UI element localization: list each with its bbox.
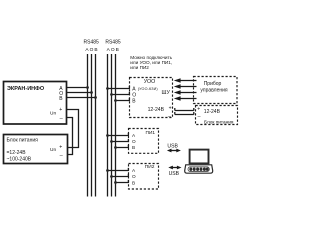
junction bus2 B PI1 <box>114 146 117 149</box>
bus1 wire B <box>95 54 97 197</box>
svg-text:USB: USB <box>167 143 178 149</box>
svg-text:=12-24В: =12-24В <box>7 150 27 156</box>
wire EKRAN A to bus1 A <box>67 87 88 89</box>
svg-text:ПИ1: ПИ1 <box>146 130 156 136</box>
junction bus2 A PI1 <box>106 134 109 137</box>
power supply unit (left) <box>4 135 68 164</box>
bus2 wire B <box>115 54 117 197</box>
arrow ShU 2 <box>174 84 197 89</box>
wire UOO B to bus2 B <box>116 98 130 101</box>
wire PI1 A to bus2 A <box>108 133 129 136</box>
svg-text:Блок питания: Блок питания <box>204 119 234 124</box>
svg-text:+: + <box>59 145 62 151</box>
RS485 bus label 1 <box>84 39 100 53</box>
svg-text:USB: USB <box>169 171 180 177</box>
power link wire - <box>175 112 194 115</box>
svg-text:(УОО-КЗИ): (УОО-КЗИ) <box>138 87 158 91</box>
control unit box <box>194 77 238 104</box>
junction bus1 O <box>90 91 93 94</box>
svg-text:RS485: RS485 <box>84 39 100 45</box>
svg-text:УОО: УОО <box>144 79 155 85</box>
svg-text:12-24В: 12-24В <box>204 109 221 115</box>
power link wire + <box>175 108 194 111</box>
svg-text:12-24В: 12-24В <box>148 107 165 113</box>
laptop computer icon <box>185 150 213 174</box>
PI2 box <box>129 164 159 190</box>
svg-text:–: – <box>198 114 201 120</box>
note text <box>130 55 172 70</box>
svg-text:+: + <box>169 106 172 112</box>
PI1 box <box>129 129 159 154</box>
wire EKRAN O to bus1 O <box>67 92 92 94</box>
junction bus2 O PI1 <box>110 140 113 143</box>
power supply 12-24V box (right) <box>196 106 238 125</box>
junction bus2 B PI2 <box>114 181 117 184</box>
bus1 wire O <box>91 54 93 197</box>
svg-text:O: O <box>90 47 94 53</box>
svg-text:O: O <box>132 139 136 144</box>
svg-text:B: B <box>94 47 97 53</box>
bus1 wire A <box>87 54 89 197</box>
arrow ShU 4 <box>174 96 197 101</box>
junction bus2 A PI2 <box>106 169 109 172</box>
wire EKRAN Un+ to PSU Un+ <box>67 110 79 148</box>
junction bus2 B <box>114 99 117 102</box>
junction bus1 A <box>86 86 89 89</box>
wire PI2 O to bus2 O <box>112 174 129 177</box>
arrow ShU 1 <box>174 78 197 83</box>
bus2 wire O <box>111 54 113 197</box>
wire UOO A to bus2 A <box>108 86 130 89</box>
svg-text:ЭКРАН-ИНФО: ЭКРАН-ИНФО <box>7 86 45 92</box>
svg-text:ПИ2: ПИ2 <box>145 164 155 170</box>
junction bus2 O <box>110 93 113 96</box>
bus2 wire A <box>107 54 109 197</box>
junction bus1 B <box>94 96 97 99</box>
svg-text:+: + <box>197 107 200 113</box>
svg-text:O: O <box>111 47 115 53</box>
USB arrow 1 <box>167 149 181 153</box>
wire UOO O to bus2 O <box>112 92 130 95</box>
svg-text:управления: управления <box>200 87 228 93</box>
svg-text:RS485: RS485 <box>105 39 121 45</box>
svg-text:~100-240В: ~100-240В <box>7 156 32 162</box>
svg-text:Прибор: Прибор <box>204 81 222 87</box>
svg-text:Un: Un <box>50 147 56 153</box>
wire PI2 B to bus2 B <box>116 180 129 183</box>
svg-text:O: O <box>132 174 136 179</box>
svg-text:или ПИ2: или ПИ2 <box>130 65 149 70</box>
junction bus2 O PI2 <box>110 175 113 178</box>
RS485 bus label 2 <box>105 39 121 53</box>
svg-text:ШУ: ШУ <box>162 90 171 96</box>
wire PI1 B to bus2 B <box>116 145 129 148</box>
display unit EKRAN-INFO <box>4 82 67 125</box>
svg-text:B: B <box>116 47 119 53</box>
svg-text:B: B <box>132 180 135 185</box>
USB arrow 2 <box>168 166 181 170</box>
wire PI2 A to bus2 A <box>108 168 129 171</box>
wire PI1 O to bus2 O <box>112 139 129 142</box>
svg-text:Un: Un <box>50 110 56 116</box>
UOO box <box>130 78 173 120</box>
svg-text:Блок питания: Блок питания <box>7 137 39 143</box>
svg-text:–: – <box>168 113 171 119</box>
svg-text:B: B <box>132 145 135 150</box>
wire EKRAN Un- to PSU Un- <box>67 118 73 155</box>
svg-text:+: + <box>59 107 62 113</box>
wire EKRAN B to bus1 B <box>67 97 96 99</box>
arrow ShU 3 <box>174 90 197 95</box>
junction bus2 A <box>106 87 109 90</box>
